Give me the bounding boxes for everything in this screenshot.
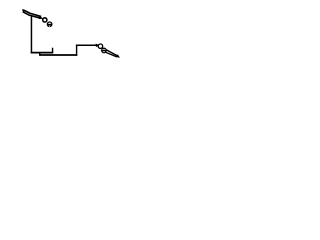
wire: vertical from P1 shaft down [30,15,32,53]
wire: terminal stub up at end of upper run [52,48,54,54]
P2 knob base shade [103,47,105,50]
P1 shaft lower stroke [23,12,41,18]
adjustable component P2 (screwdriver-adjust symbol, lower right) [96,44,120,58]
P1 knob circle [47,22,52,27]
P2 blade tip wedge [116,54,120,57]
wire: upper horizontal run [31,52,54,54]
P1 knob base shade [48,25,51,28]
P1 shaft upper stroke [23,10,41,17]
P1 screw head circle [43,18,47,22]
P1 blade tip wedge [22,9,26,13]
P2 knob slot [102,50,106,51]
P2 screw head circle [98,44,102,48]
adjustable component P1 (screwdriver-adjust symbol, upper left) [22,9,52,27]
wire: top horizontal run to P2 [76,44,97,46]
P2 shaft lower stroke [105,52,117,57]
P2 shaft upper stroke [106,50,117,56]
P2 knob circle [102,48,107,53]
P1 pointer arrowhead [39,16,44,19]
wire: riser up to right net [76,45,78,56]
wire: long lower horizontal run [39,54,77,56]
wire: short drop to lower run [39,53,41,56]
P2 pointer arrowhead at wire end [96,44,100,48]
P1 knob slot [47,24,51,26]
